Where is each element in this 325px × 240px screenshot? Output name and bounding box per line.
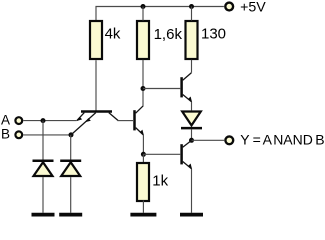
- svg-text:Y=ANANDB: Y=ANANDB: [240, 132, 324, 148]
- node junction B / D2: [69, 132, 74, 137]
- wire rail to R2 top: [142, 7, 144, 21]
- svg-text:+5V: +5V: [240, 0, 266, 16]
- wire R2 bottom to node: [142, 60, 144, 89]
- node junction A / D1: [41, 118, 46, 123]
- ground under D1: [32, 213, 55, 217]
- wire D2 to ground: [70, 177, 72, 213]
- wire Q2 emitter down to node: [142, 135, 144, 154]
- node junction R2/Q2/Q3: [141, 86, 146, 91]
- wire R4 bottom to ground: [142, 201, 144, 213]
- wire D3 to output node: [191, 129, 193, 140]
- wire input B line: [23, 134, 71, 136]
- terminal output Y: [225, 136, 233, 144]
- wire Q3 emitter to D3: [191, 102, 193, 111]
- node junction output Y: [189, 138, 194, 143]
- wire Q4 emitter to ground: [191, 169, 193, 213]
- wire R3 bottom to Q3 collector: [191, 60, 193, 73]
- wire node to Q4 base: [143, 153, 180, 155]
- resistor R2 1,6k: [137, 21, 149, 59]
- node junction on rail at R2: [141, 4, 146, 9]
- transistor Q3 upper output: [182, 73, 193, 103]
- wire input A line: [23, 120, 76, 122]
- resistor R1 4k: [90, 21, 102, 59]
- svg-text:1k: 1k: [152, 172, 168, 189]
- transistor Q2 phase splitter: [135, 106, 144, 136]
- ground under R4: [130, 213, 156, 217]
- transistor Q1 multi-emitter input: [71, 112, 118, 135]
- wire output to terminal: [192, 139, 225, 141]
- wire +5V rail: [96, 7, 224, 21]
- terminal +5V: [225, 3, 233, 11]
- terminal input B: [15, 131, 22, 138]
- svg-text:4k: 4k: [105, 26, 121, 43]
- resistor R4 1k: [137, 163, 149, 201]
- node junction on rail at R3: [189, 4, 194, 9]
- wire node down to R4: [142, 154, 144, 162]
- diode D1 input clamp A: [33, 161, 54, 176]
- resistor R3 130: [186, 21, 198, 59]
- wire R1 bottom to Q1 base: [95, 60, 97, 111]
- diode D3 level shifter: [181, 112, 202, 129]
- wire B node down to D2: [70, 135, 72, 160]
- wire D1 to ground: [42, 177, 44, 213]
- ground under D2: [59, 213, 82, 217]
- svg-text:1,6k: 1,6k: [154, 26, 183, 43]
- node junction Q2 emitter / R4 / Q4 base: [141, 152, 146, 157]
- diode D2 input clamp B: [60, 161, 81, 176]
- svg-text:A: A: [1, 112, 10, 127]
- terminal input A: [15, 117, 22, 124]
- wire Q1 collector to Q2 base: [118, 120, 134, 122]
- transistor Q4 lower output: [182, 141, 193, 170]
- svg-text:130: 130: [201, 26, 226, 43]
- wire rail to R3 top: [191, 7, 193, 21]
- wire node to Q3 base: [143, 88, 180, 90]
- wire Q2 collector up to node: [142, 89, 144, 107]
- svg-text:B: B: [1, 127, 10, 142]
- wire A node down to D1: [42, 121, 44, 160]
- ground under Q4: [180, 213, 203, 217]
